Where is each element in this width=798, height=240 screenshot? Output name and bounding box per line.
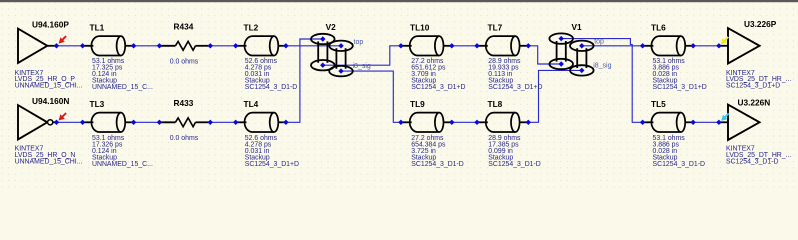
node R433 out (N row)	[208, 120, 213, 125]
label TL4	[244, 99, 259, 109]
node via V2 right bottom pad	[338, 68, 343, 73]
node TL2 out (P row)	[283, 43, 288, 48]
wire TL10 to TL7	[452, 45, 477, 47]
node via V1 right bottom pad	[579, 68, 584, 73]
value label R433	[170, 135, 199, 142]
node TL8 out (N row)	[526, 120, 531, 125]
wire TL2 to via V2 right barrel	[286, 45, 341, 47]
node TL10 out (P row)	[449, 43, 454, 48]
node via V1 left top pad	[559, 36, 564, 41]
label R434	[174, 22, 194, 32]
net label i8_sig at V1	[593, 62, 611, 69]
resistor R434	[159, 41, 210, 50]
value labels TL3	[92, 135, 153, 168]
wire TL4 up to via V2 left barrel	[286, 39, 323, 122]
node via V2 left bottom pad	[320, 63, 325, 68]
value labels TL9	[411, 135, 464, 168]
svg-text:TL7: TL7	[488, 22, 503, 32]
node TL5 in (N row)	[640, 120, 645, 125]
wire TL8 up to via V1 right barrel	[528, 70, 582, 122]
svg-text:i8_sig: i8_sig	[593, 62, 611, 69]
node TL9 in (N row)	[398, 120, 403, 125]
value labels TL1	[92, 58, 153, 91]
label R433	[174, 98, 194, 108]
value labels TL4	[245, 135, 299, 168]
node TL1 in (P row)	[80, 43, 85, 48]
node via V2 left top pad	[320, 36, 325, 41]
node TL1 out (P row)	[131, 43, 136, 48]
value labels U3.226P	[726, 70, 791, 90]
wire via V1 right barrel top to TL6	[582, 45, 643, 47]
wire TL5 to U3.226N	[693, 121, 719, 123]
transmission line TL2	[236, 36, 287, 55]
svg-text:V1: V1	[572, 22, 583, 32]
label U94.160N	[32, 96, 69, 106]
wire via V2 left barrel bottom to TL10	[323, 46, 401, 65]
net label top at V2	[354, 39, 364, 46]
svg-text:TL8: TL8	[488, 99, 503, 109]
value label R434	[170, 59, 199, 66]
wire TL6 to U3.226P	[693, 45, 719, 47]
svg-text:0.0 ohms: 0.0 ohms	[170, 59, 199, 66]
label TL2	[244, 22, 259, 32]
transmission line TL6	[643, 36, 694, 55]
label U3.226P	[744, 19, 777, 29]
value labels U94.160P	[15, 70, 83, 90]
svg-text:TL5: TL5	[651, 99, 666, 109]
label TL6	[651, 22, 666, 32]
net label top at V1	[594, 39, 604, 46]
node TL9 out (N row)	[449, 120, 454, 125]
top window border	[0, 0, 798, 2]
svg-text:i8_sig: i8_sig	[353, 63, 371, 70]
node TL3 in (N row)	[80, 120, 85, 125]
node TL6 in (P row)	[640, 43, 645, 48]
node driver out (P row)	[54, 43, 59, 48]
label TL7	[488, 22, 503, 32]
svg-text:TL2: TL2	[244, 22, 259, 32]
svg-text:TL9: TL9	[410, 99, 425, 109]
label TL8	[488, 99, 503, 109]
transmission line TL9	[401, 113, 452, 132]
label TL3	[90, 99, 105, 109]
label TL1	[90, 22, 105, 32]
via V2 left barrel	[311, 34, 335, 71]
transmission line TL3	[83, 113, 134, 132]
svg-text:R434: R434	[174, 22, 194, 32]
node driver out (N row)	[54, 120, 59, 125]
label U94.160P	[32, 19, 69, 29]
svg-text:top: top	[594, 39, 604, 46]
wire TL7 down to via V1 left barrel	[528, 46, 561, 64]
resistor R433	[159, 118, 210, 127]
svg-text:TL3: TL3	[90, 99, 105, 109]
wire U94.160N to TL3	[57, 121, 83, 123]
net label i8_sig at V2	[353, 63, 371, 70]
grid dots	[0, 0, 798, 191]
svg-text:V2: V2	[326, 22, 337, 32]
node TL4 in (N row)	[233, 120, 238, 125]
transmission line TL5	[643, 113, 694, 132]
label V1	[572, 22, 583, 32]
label TL5	[651, 99, 666, 109]
node TL7 out (P row)	[526, 43, 531, 48]
node receiver in (N row)	[716, 120, 721, 125]
label V2	[326, 22, 337, 32]
value labels U94.160N	[15, 146, 83, 166]
node R434 in (P row)	[157, 43, 162, 48]
transmission line TL7	[477, 36, 528, 55]
value labels TL5	[653, 135, 706, 168]
wire R434 to TL2	[210, 45, 235, 47]
wire via V2 right barrel bottom down to TL9	[341, 71, 401, 122]
wire R433 to TL4	[210, 121, 235, 123]
value labels TL6	[653, 58, 707, 91]
value labels TL2	[245, 58, 298, 91]
wire via V1 left barrel top down to TL5	[561, 39, 642, 123]
label U3.226N	[738, 97, 771, 107]
transmission line TL4	[236, 113, 287, 132]
svg-text:TL10: TL10	[410, 22, 430, 32]
value labels U3.226N	[726, 146, 791, 166]
value labels TL8	[488, 135, 541, 168]
transmission line TL8	[477, 113, 528, 132]
node via V1 left bottom pad	[559, 61, 564, 66]
wire TL9 to TL8	[452, 121, 477, 123]
svg-text:top: top	[354, 39, 364, 46]
node TL3 out (N row)	[131, 120, 136, 125]
svg-text:TL6: TL6	[651, 22, 666, 32]
red probe arrow at U94.160P output	[59, 36, 67, 44]
label TL10	[410, 22, 430, 32]
value labels TL10	[411, 58, 465, 91]
svg-text:U3.226N: U3.226N	[738, 97, 771, 107]
wire U94.160P to TL1	[57, 45, 83, 47]
node TL10 in (P row)	[398, 43, 403, 48]
label TL9	[410, 99, 425, 109]
node receiver in (P row)	[716, 43, 721, 48]
svg-text:0.0 ohms: 0.0 ohms	[170, 135, 199, 142]
value labels TL7	[488, 58, 542, 91]
svg-text:TL4: TL4	[244, 99, 259, 109]
svg-text:TL1: TL1	[90, 22, 105, 32]
red probe arrow at U94.160N output	[59, 113, 67, 121]
node R433 in (N row)	[157, 120, 162, 125]
driver buffer U94.160P	[18, 29, 57, 63]
svg-text:U94.160N: U94.160N	[32, 96, 69, 106]
yellow probe arrow at U3.226P input	[721, 37, 729, 45]
svg-text:U94.160P: U94.160P	[32, 19, 69, 29]
node R434 out (P row)	[208, 43, 213, 48]
svg-text:U3.226P: U3.226P	[744, 19, 777, 29]
wire TL3 to R433	[134, 121, 160, 123]
via V1 right barrel	[570, 41, 594, 76]
node TL4 out (N row)	[283, 120, 288, 125]
node TL6 out (P row)	[690, 43, 695, 48]
driver buffer U94.160N (inverted)	[18, 105, 57, 139]
node TL5 out (N row)	[690, 120, 695, 125]
node TL7 in (P row)	[474, 43, 479, 48]
node TL2 in (P row)	[233, 43, 238, 48]
via V1 left barrel	[549, 33, 573, 69]
cyan probe arrow at U3.226N input	[721, 113, 729, 121]
receiver buffer U3.226P	[719, 28, 760, 63]
receiver buffer U3.226N	[719, 105, 760, 140]
transmission line TL10	[401, 36, 452, 55]
node via V1 right top pad	[579, 43, 584, 48]
node TL8 in (N row)	[474, 120, 479, 125]
wire TL1 to R434	[134, 45, 160, 47]
node via V2 right top pad	[338, 43, 343, 48]
via V2 right barrel	[329, 41, 353, 77]
transmission line TL1	[83, 36, 134, 55]
svg-text:R433: R433	[174, 98, 194, 108]
